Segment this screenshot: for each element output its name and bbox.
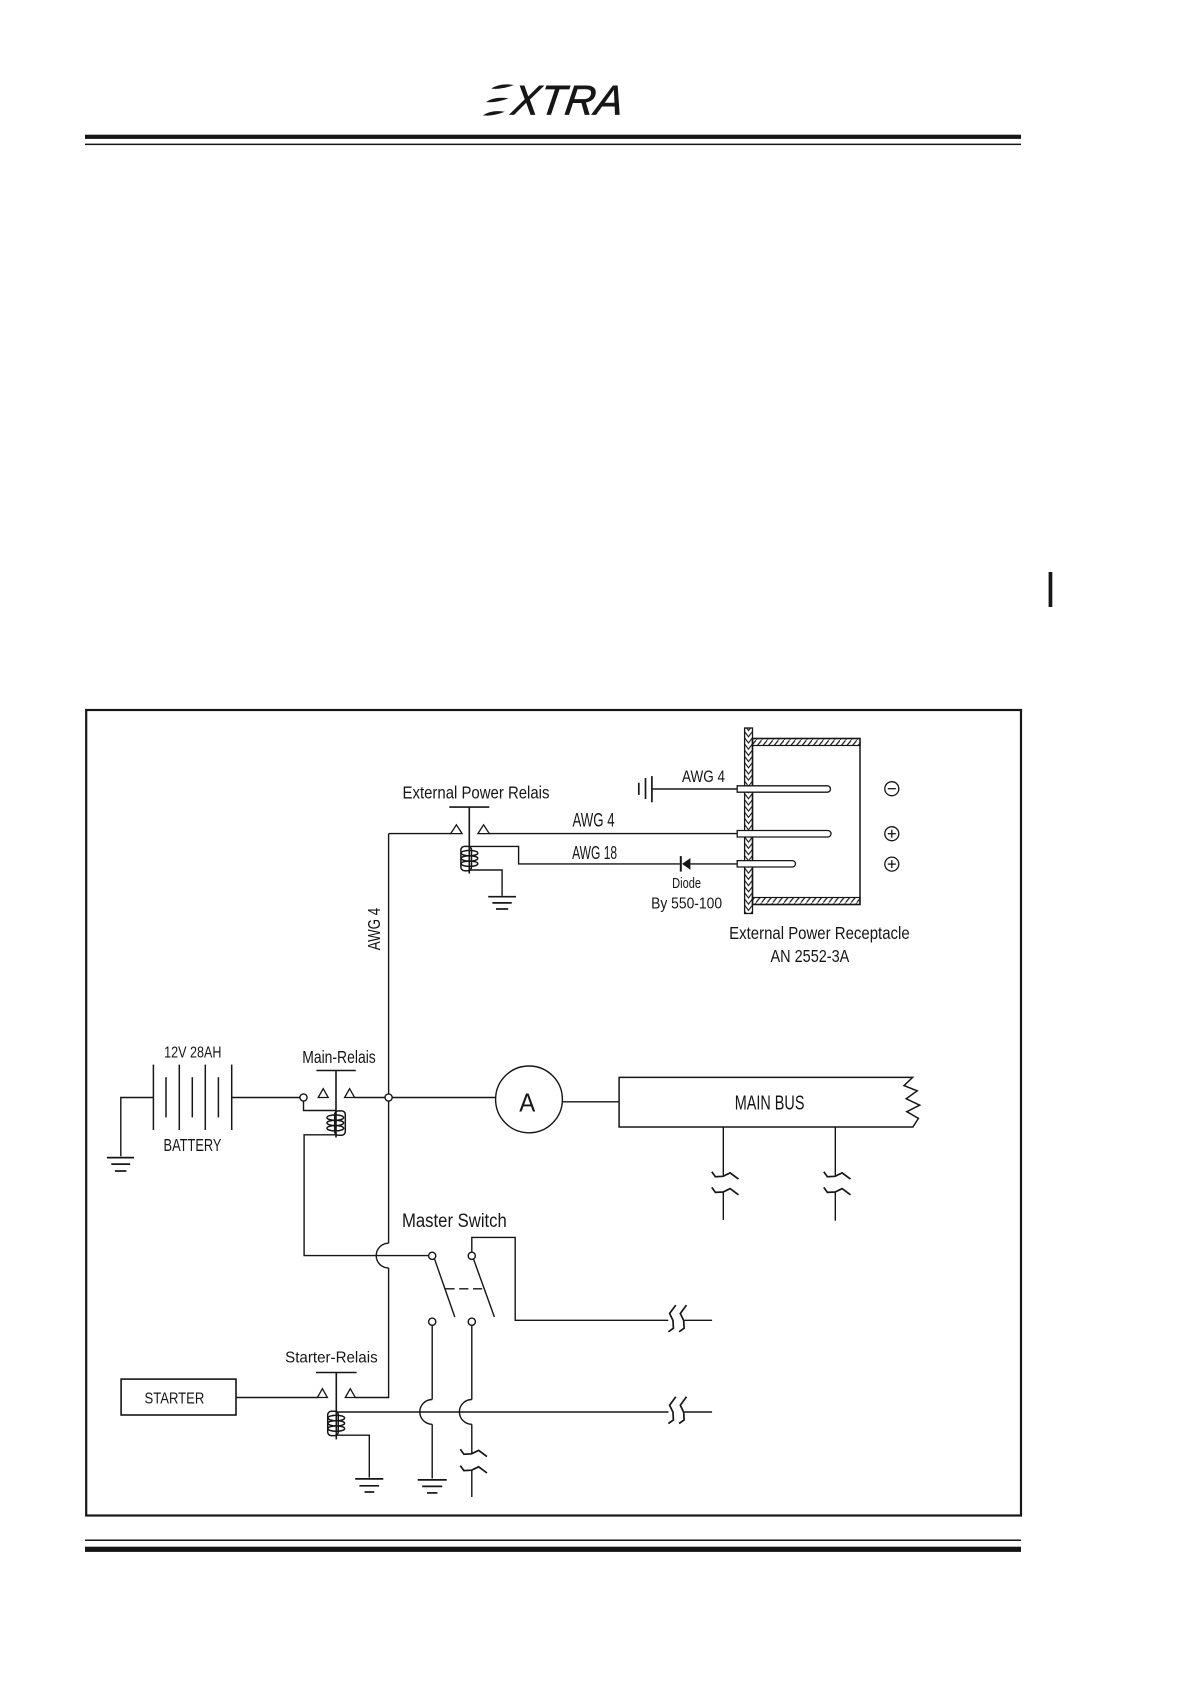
- svg-text:Diode: Diode: [672, 875, 701, 892]
- label AN 2552-3A: [770, 946, 849, 966]
- relay K2 contact triangle right: [345, 1089, 355, 1098]
- label Starter-Relais: [285, 1349, 378, 1366]
- master switch S1 pole 2 top contact: [468, 1252, 475, 1259]
- svg-text:AWG 18: AWG 18: [572, 843, 617, 863]
- wire master switch pole 2 bottom with hop and break: [459, 1325, 471, 1497]
- svg-text:Master Switch: Master Switch: [402, 1211, 507, 1232]
- wire starter box to relay K3: [236, 1397, 317, 1399]
- wire relay K2 right contact to node B: [355, 1097, 388, 1099]
- battery BT1: [153, 1065, 231, 1130]
- footer thin rule: [85, 1540, 1021, 1542]
- relay K2 contact triangle left: [318, 1089, 328, 1098]
- wire ammeter to main bus: [562, 1101, 619, 1103]
- node B junction circle: [385, 1094, 392, 1101]
- wire node B to ammeter: [392, 1097, 496, 1099]
- svg-text:STARTER: STARTER: [145, 1391, 205, 1408]
- footer thick rule: [85, 1547, 1021, 1552]
- break marks lower avionics wire: [668, 1397, 686, 1424]
- master switch S1 pole 2 bottom contact: [468, 1318, 475, 1325]
- master switch S1 pole 1 top contact: [429, 1252, 436, 1259]
- wire node A to relay K1 left contact: [389, 833, 451, 835]
- master switch S1 pole 1 lever: [435, 1259, 455, 1317]
- plus terminal symbol upper: [885, 827, 899, 841]
- main bus bar: [619, 1077, 920, 1127]
- break marks main bus drop 1: [712, 1172, 739, 1195]
- receptacle mounting plate hatched: [745, 728, 753, 914]
- svg-text:Main-Relais: Main-Relais: [302, 1047, 376, 1067]
- wire diode to receptacle pin 3: [690, 863, 737, 865]
- receptacle pin 1: [737, 786, 830, 792]
- wire battery positive to main relay: [232, 1097, 301, 1099]
- ground below relay K1: [488, 897, 516, 909]
- relay K3 plunger line: [335, 1373, 337, 1440]
- master switch S1 mechanical link dashed: [445, 1288, 484, 1290]
- header thick rule: [85, 135, 1021, 139]
- plus terminal symbol lower: [885, 857, 899, 871]
- break marks avionics wire: [668, 1305, 686, 1332]
- label BATTERY: [164, 1135, 222, 1155]
- wire relay K2 contact to coil: [304, 1101, 336, 1111]
- diagram border box: [86, 710, 1021, 1516]
- wire relay K2 coil to master switch: [304, 1135, 429, 1256]
- svg-text:External Power Relais: External Power Relais: [403, 783, 550, 803]
- label External Power Relais: [403, 783, 550, 803]
- wire master switch pole 1 bottom to ground with hop: [420, 1325, 432, 1479]
- break marks master switch pole 2 wire: [460, 1449, 487, 1473]
- label Master Switch: [402, 1211, 507, 1232]
- relay K3 armature bar: [316, 1372, 357, 1374]
- ammeter A1: [496, 1066, 563, 1133]
- EXTRA logo E-stroke 3: [483, 111, 505, 116]
- svg-text:XTRA: XTRA: [508, 77, 627, 124]
- break marks main bus drop 2: [824, 1172, 851, 1195]
- STARTER box: [121, 1379, 236, 1415]
- relay K1 plunger line: [468, 807, 470, 874]
- wire relay K1 right contact to receptacle pin 2: [489, 833, 738, 835]
- receptacle pin 2: [737, 831, 831, 838]
- wire avionics bus lower with hops and break: [336, 1411, 712, 1413]
- relay K1 contact triangle right: [478, 825, 489, 834]
- svg-text:AWG 4: AWG 4: [572, 811, 614, 832]
- relay K3 coil: [328, 1411, 345, 1435]
- wire AWG 4 vertical from relay K1 to starter relay with hop: [355, 834, 388, 1398]
- label External Power Receptacle: [729, 923, 910, 943]
- label Diode: [672, 875, 701, 892]
- wire main bus drop 2: [834, 1127, 836, 1221]
- label AWG 4 vertical wire rotated: [364, 908, 384, 951]
- svg-text:12V 28AH: 12V 28AH: [164, 1045, 221, 1062]
- relay K1 armature bar: [449, 806, 489, 808]
- relay K2 plunger line: [335, 1071, 337, 1138]
- relay K1 coil: [461, 846, 478, 870]
- relay K2 armature bar: [316, 1070, 355, 1072]
- svg-text:AWG 4: AWG 4: [364, 908, 384, 951]
- svg-text:A: A: [519, 1088, 536, 1118]
- receptacle housing: [753, 739, 861, 905]
- ground below master switch pole 1: [418, 1480, 447, 1493]
- relay K2 left contact circle: [300, 1094, 307, 1101]
- wire AWG 18 from relay K1 coil to diode: [470, 846, 680, 864]
- ground below battery: [107, 1158, 134, 1171]
- minus terminal symbol: [885, 782, 899, 796]
- master switch S1 pole 2 lever: [474, 1259, 495, 1317]
- wire relay K3 coil to ground: [336, 1435, 369, 1477]
- master switch S1 pole 1 bottom contact: [429, 1318, 436, 1325]
- svg-text:AN 2552-3A: AN 2552-3A: [770, 946, 849, 966]
- ground symbol at receptacle pin 1: [639, 776, 652, 802]
- EXTRA logo E-stroke 2: [486, 98, 509, 103]
- label By 550-100: [651, 896, 722, 913]
- svg-text:Starter-Relais: Starter-Relais: [285, 1349, 378, 1366]
- label AWG 4 middle: [572, 811, 614, 832]
- wire battery negative to ground: [121, 1098, 154, 1157]
- relay K3 contact triangle left: [317, 1389, 327, 1398]
- svg-text:AWG 4: AWG 4: [682, 767, 725, 786]
- wire ground to receptacle pin 1: [652, 788, 738, 790]
- header thin rule: [85, 144, 1021, 146]
- ground below relay K3: [355, 1479, 383, 1492]
- label Main-Relais: [302, 1047, 376, 1067]
- relay K1 contact triangle left: [451, 825, 462, 834]
- diode D1: [680, 856, 691, 872]
- wire relay K1 coil to ground: [470, 870, 502, 896]
- EXTRA logo XTRA text: [508, 77, 627, 124]
- svg-text:External Power Receptacle: External Power Receptacle: [729, 923, 910, 943]
- label AWG 4 top: [682, 767, 725, 786]
- svg-text:BATTERY: BATTERY: [164, 1135, 222, 1155]
- svg-text:By 550-100: By 550-100: [651, 896, 722, 913]
- svg-text:MAIN BUS: MAIN BUS: [735, 1092, 805, 1115]
- label AWG 18: [572, 843, 617, 863]
- wire master switch pole 2 top to avionics: [472, 1237, 712, 1320]
- wire main bus drop 1: [722, 1127, 724, 1220]
- label 12V 28AH: [164, 1045, 221, 1062]
- revision change bar: [1049, 572, 1053, 607]
- receptacle pin 3: [737, 861, 795, 867]
- relay K2 coil: [327, 1111, 345, 1135]
- EXTRA logo E-stroke 1: [491, 84, 514, 89]
- relay K3 contact triangle right: [345, 1389, 355, 1398]
